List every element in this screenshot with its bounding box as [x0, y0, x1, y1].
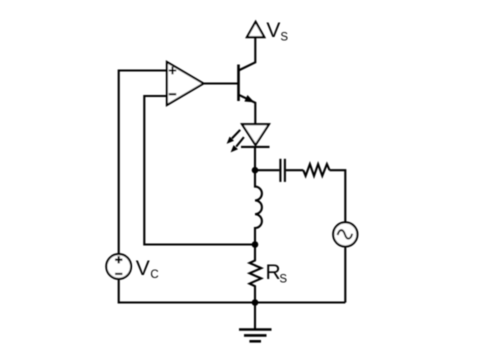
wire resistor to ac source	[330, 170, 346, 222]
wire ac source to bottom rail	[344, 247, 346, 303]
op-amp U1	[167, 62, 204, 105]
wire from op-amp inverting input left and down to feedback node	[144, 96, 252, 245]
node between led, capacitor and inductor	[252, 167, 259, 174]
wire led cathode down to node	[254, 147, 256, 170]
wire op-amp output to transistor base	[204, 82, 238, 84]
inductor L1	[255, 170, 262, 244]
svg-text:VS: VS	[266, 19, 288, 43]
voltage source VC	[106, 254, 131, 279]
node at ground junction	[252, 299, 259, 306]
wire from op-amp noninverting input left and down to VC top	[119, 71, 167, 255]
wire node to capacitor	[255, 169, 279, 171]
svg-text:VC: VC	[136, 257, 159, 281]
transistor Q1	[239, 38, 256, 125]
led D1	[227, 124, 270, 152]
wire VC bottom along bottom rail to ac source	[119, 279, 346, 303]
wire capacitor to resistor	[286, 169, 303, 171]
supply VS	[247, 22, 264, 37]
svg-text:RS: RS	[266, 261, 288, 285]
ac source	[333, 222, 357, 246]
capacitor C1	[280, 159, 285, 182]
ground	[239, 303, 272, 342]
resistor R1	[303, 164, 329, 176]
node at feedback junction	[252, 241, 259, 248]
resistor RS	[250, 245, 262, 303]
